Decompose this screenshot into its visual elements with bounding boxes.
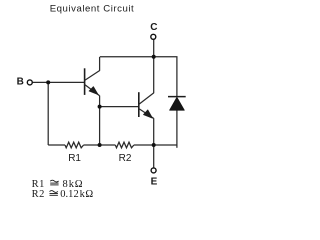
svg-text:8kΩ: 8kΩ: [63, 179, 83, 190]
transistor Q2: [139, 92, 154, 118]
wire top rail from Q1 collector to diode branch: [100, 57, 177, 97]
node X junction (Q1 emitter / Q2 base): [98, 105, 102, 109]
wire left vertical (B node down): [47, 82, 49, 145]
resistor R2 zigzag: [115, 142, 134, 148]
terminal E circle: [151, 168, 156, 173]
wire node X to Q2 base: [100, 106, 139, 108]
wire Q1 emitter vertical down to bottom rail: [99, 96, 101, 145]
diode D1 (E to C): [168, 97, 186, 111]
wire bottom rail left segment: [48, 144, 65, 146]
svg-text:R1: R1: [32, 179, 45, 190]
value label R2 = 0.12kOhm: [32, 189, 94, 200]
wire bottom rail middle segment: [84, 144, 116, 146]
svg-text:C: C: [150, 22, 157, 33]
svg-text:R2: R2: [119, 153, 132, 164]
terminal C circle: [151, 34, 156, 39]
svg-text:R2: R2: [32, 189, 45, 200]
svg-text:B: B: [17, 77, 24, 88]
svg-text:E: E: [151, 176, 158, 187]
node E junction bottom rail: [152, 143, 156, 147]
wire B to Q1 base: [33, 81, 84, 83]
node C junction top rail: [152, 55, 156, 59]
transistor Q1: [84, 57, 99, 96]
svg-text:0.12kΩ: 0.12kΩ: [60, 189, 93, 200]
node junction R1/R2 bottom rail: [98, 143, 102, 147]
value label R1 = 8kOhm: [32, 179, 83, 190]
wire bottom rail right segment to diode branch: [134, 110, 177, 145]
node B junction: [46, 80, 50, 84]
terminal B circle: [27, 80, 32, 85]
svg-text:Equivalent Circuit: Equivalent Circuit: [50, 3, 135, 14]
wire Q2 collector vertical to top rail: [153, 57, 155, 93]
resistor R1 zigzag: [65, 142, 84, 148]
wire C terminal drop: [153, 40, 155, 57]
approx-equals symbol line 1: [50, 180, 58, 185]
approx-equals symbol line 2: [50, 191, 58, 196]
wire Q2 emitter vertical to bottom rail: [153, 118, 155, 145]
svg-text:R1: R1: [68, 153, 81, 164]
wire E terminal drop: [153, 145, 155, 168]
